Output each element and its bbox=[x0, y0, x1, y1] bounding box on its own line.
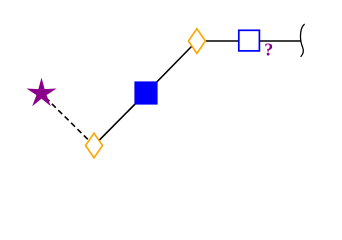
node: open orange diamond1 residue bbox=[86, 133, 103, 158]
terminal: reducing end squiggle bracket bbox=[300, 24, 304, 56]
wire: bond open square to reducing-end squiggle bbox=[249, 40, 301, 42]
wire: bond diamond1 to blue square bbox=[94, 93, 146, 146]
wire: bond diamond2 to open square bbox=[197, 40, 249, 42]
wire: dashed bond star to diamond1 bbox=[46, 98, 95, 146]
node: filled blue square residue bbox=[134, 81, 157, 104]
wire: bond blue square to diamond2 bbox=[146, 41, 197, 93]
node: purple star residue bbox=[28, 79, 55, 105]
svg-text:?: ? bbox=[264, 40, 273, 60]
node: open blue square residue bbox=[239, 30, 260, 51]
node: open orange diamond2 residue bbox=[188, 29, 205, 54]
